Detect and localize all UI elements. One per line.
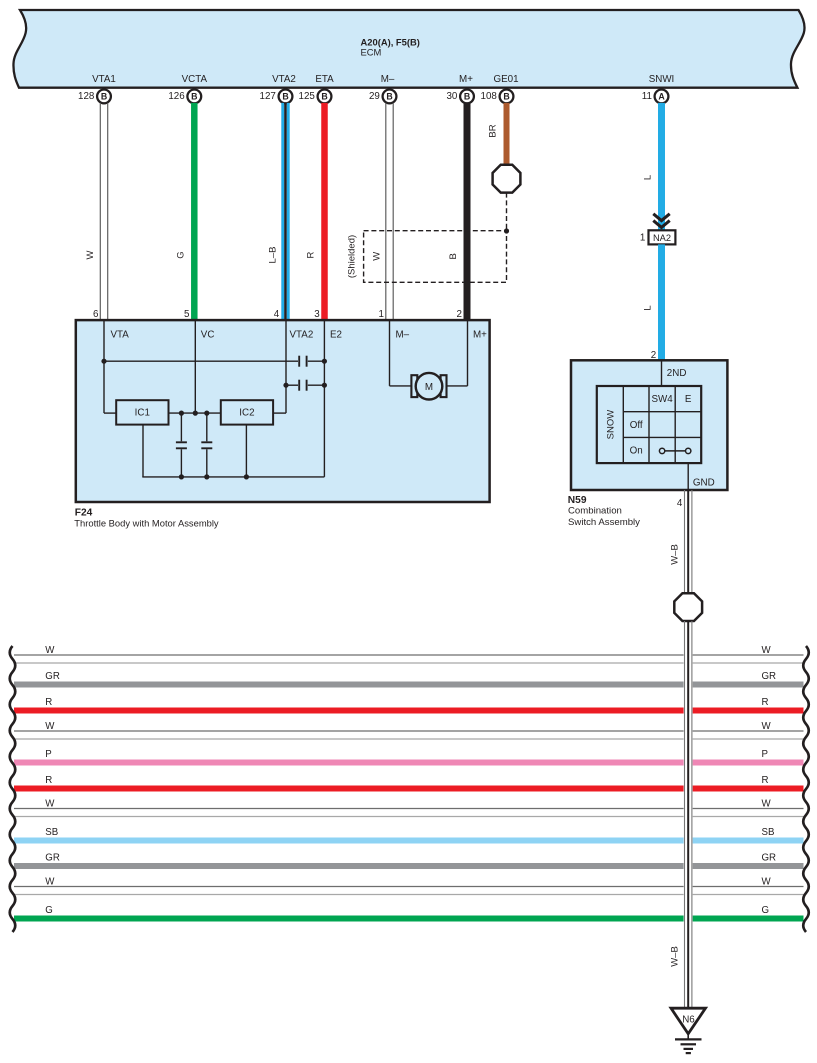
capacitor C3 (180, 413, 182, 441)
bus wire R at y=788.5 (14, 786, 684, 792)
svg-text:3: 3 (314, 309, 320, 320)
svg-text:125: 125 (299, 91, 316, 102)
svg-text:N6: N6 (682, 1014, 695, 1025)
wire W-B to ground point (684, 621, 686, 1009)
capacitor C4 (206, 413, 208, 441)
bus wire W at y=731 (14, 730, 684, 732)
svg-text:P: P (762, 749, 768, 760)
svg-text:Combination: Combination (568, 506, 622, 517)
svg-text:G: G (762, 905, 770, 916)
svg-text:B: B (101, 92, 107, 102)
svg-text:L: L (643, 175, 654, 180)
N59 Combination Switch Assembly box (571, 360, 727, 490)
node dot E2 upper (322, 359, 327, 364)
wire IC1 to IC2 (169, 412, 221, 414)
svg-text:L: L (643, 305, 654, 310)
svg-text:NA2: NA2 (653, 233, 671, 243)
svg-text:128: 128 (78, 91, 95, 102)
svg-text:GR: GR (762, 853, 777, 864)
svg-text:VTA2: VTA2 (272, 74, 296, 85)
motor brush right (441, 375, 447, 397)
svg-text:R: R (45, 775, 52, 786)
svg-text:W: W (45, 876, 55, 887)
bus wire W at y=808.5 (14, 808, 684, 810)
capacitor C1 (298, 356, 300, 367)
svg-text:On: On (630, 446, 643, 457)
switch contact (665, 450, 686, 452)
svg-text:W: W (762, 798, 772, 809)
svg-text:R: R (762, 697, 769, 708)
motor M (416, 373, 443, 400)
wire VTA to E2 with capacitor (104, 360, 298, 362)
svg-text:4: 4 (677, 498, 683, 509)
svg-text:VC: VC (201, 330, 215, 341)
svg-text:Switch Assembly: Switch Assembly (568, 517, 640, 528)
svg-text:M+: M+ (473, 330, 487, 341)
node dot VTA (101, 359, 106, 364)
svg-text:Off: Off (630, 420, 643, 431)
bus wire GR at y=684.5 (14, 682, 684, 688)
switch grid (597, 386, 701, 463)
svg-text:W: W (45, 645, 55, 656)
svg-text:R: R (45, 697, 52, 708)
svg-text:VCTA: VCTA (182, 74, 208, 85)
svg-text:GND: GND (693, 477, 715, 488)
bus wire R at y=710.5 (14, 708, 684, 714)
wire IC1 ground leg (142, 425, 144, 477)
svg-text:SB: SB (762, 827, 775, 838)
wire VTA internal (103, 320, 105, 413)
shield ground connector octagon (493, 165, 521, 193)
svg-text:R: R (762, 775, 769, 786)
bus wire W at y=655 (14, 654, 684, 656)
ground N6 triangle (671, 1008, 706, 1034)
wire W from M- pin 29 (385, 103, 387, 320)
svg-text:VTA2: VTA2 (290, 330, 314, 341)
wire L from NA2 to combination switch (658, 244, 665, 360)
svg-text:4: 4 (274, 309, 280, 320)
svg-text:B: B (282, 92, 288, 102)
node dot E2 lower (322, 383, 327, 388)
svg-text:ETA: ETA (315, 74, 334, 85)
svg-text:127: 127 (260, 91, 276, 102)
wire L from SNWI pin 11 (658, 103, 665, 230)
svg-text:W: W (371, 252, 382, 261)
svg-text:29: 29 (369, 91, 380, 102)
ground bus wire (142, 476, 324, 478)
wire VC internal (194, 320, 196, 413)
svg-text:B: B (503, 92, 509, 102)
wire IC2 ground leg (245, 425, 247, 477)
connector chevrons on L wire (653, 214, 669, 221)
ECM connector band A20(A), F5(B) (13, 10, 804, 88)
svg-text:5: 5 (184, 309, 190, 320)
wire W-B from N59 GND (684, 490, 686, 593)
body ground connector octagon (674, 593, 702, 621)
wire M+ internal (467, 320, 469, 386)
svg-text:GR: GR (45, 853, 60, 864)
svg-text:VTA1: VTA1 (92, 74, 116, 85)
svg-text:GE01: GE01 (493, 74, 518, 85)
svg-text:E2: E2 (330, 330, 342, 341)
svg-text:108: 108 (481, 91, 498, 102)
svg-text:B: B (448, 253, 459, 259)
svg-text:IC1: IC1 (135, 408, 150, 419)
svg-text:126: 126 (168, 91, 185, 102)
bus wire G at y=918.5 (14, 916, 684, 922)
wire E2 internal (323, 320, 325, 477)
IC1 (116, 400, 168, 424)
wire W from VTA1 pin 128 (99, 103, 101, 320)
wire B from M+ pin 30 (464, 103, 471, 320)
svg-text:Throttle Body with Motor Assem: Throttle Body with Motor Assembly (74, 517, 219, 528)
wire VTA2 internal (285, 320, 287, 413)
shield dashed box (364, 231, 507, 283)
shield junction dot (504, 228, 509, 233)
svg-text:P: P (45, 749, 51, 760)
bus torn edge left (10, 646, 16, 932)
wire 2ND internal (661, 360, 663, 386)
svg-text:W: W (45, 721, 55, 732)
node dot VTA2 (283, 383, 288, 388)
svg-text:E: E (685, 394, 692, 405)
svg-text:GR: GR (45, 671, 60, 682)
svg-text:30: 30 (446, 91, 457, 102)
svg-text:N59: N59 (568, 495, 587, 506)
svg-text:M+: M+ (459, 74, 473, 85)
svg-text:2: 2 (456, 309, 461, 320)
svg-text:B: B (321, 92, 327, 102)
bus wire SB at y=840.5 (14, 838, 684, 844)
svg-text:SW4: SW4 (651, 394, 673, 405)
svg-text:B: B (464, 92, 470, 102)
ground bars (675, 1038, 702, 1040)
svg-text:M: M (425, 382, 433, 393)
svg-text:SNWI: SNWI (649, 74, 675, 85)
svg-text:W–B: W–B (670, 544, 681, 565)
bus wire GR at y=866 (14, 863, 684, 869)
svg-text:BR: BR (488, 124, 499, 137)
svg-text:R: R (306, 251, 317, 258)
shield dashed drain wire (506, 193, 508, 231)
svg-text:G: G (176, 251, 187, 258)
svg-text:W–B: W–B (670, 946, 681, 967)
svg-text:11: 11 (642, 91, 652, 102)
svg-text:2ND: 2ND (667, 368, 687, 379)
svg-text:M–: M– (381, 74, 395, 85)
svg-text:B: B (386, 92, 392, 102)
svg-text:W: W (762, 645, 772, 656)
svg-text:G: G (45, 905, 53, 916)
F24 Throttle Body with Motor Assembly box (76, 320, 490, 502)
svg-text:GR: GR (762, 671, 777, 682)
wire M- internal (389, 320, 391, 386)
svg-text:SB: SB (45, 827, 58, 838)
svg-text:L–B: L–B (267, 247, 278, 264)
svg-text:VTA: VTA (111, 330, 130, 341)
svg-text:ECM: ECM (361, 46, 382, 57)
capacitor C2 (298, 380, 300, 391)
svg-text:W: W (85, 250, 96, 259)
wire E to GND internal (687, 463, 689, 490)
bus wire W at y=886.5 (14, 886, 684, 888)
motor brush left (411, 375, 417, 397)
bus wire P at y=762.5 (14, 760, 684, 766)
svg-text:1: 1 (378, 309, 383, 320)
svg-text:W: W (762, 876, 772, 887)
svg-text:SNOW: SNOW (606, 410, 617, 440)
wire G from VCTA pin 126 (191, 103, 198, 320)
svg-text:W: W (45, 798, 55, 809)
IC2 (221, 400, 273, 424)
svg-text:(Shielded): (Shielded) (347, 235, 358, 278)
svg-text:M–: M– (396, 330, 410, 341)
wire L-B from VTA2 pin 127 (281, 103, 284, 320)
ground stem (687, 1034, 689, 1040)
wire VTA2 to E2 with capacitor (286, 384, 298, 386)
svg-text:B: B (191, 92, 197, 102)
svg-text:A: A (658, 92, 665, 102)
svg-text:IC2: IC2 (239, 408, 254, 419)
svg-text:W: W (762, 721, 772, 732)
svg-text:1: 1 (640, 233, 645, 244)
svg-text:6: 6 (93, 309, 99, 320)
wire R from ETA pin 125 (321, 103, 328, 320)
wire BR from GE01 pin 108 (504, 103, 510, 165)
bus torn edge right (803, 646, 809, 932)
